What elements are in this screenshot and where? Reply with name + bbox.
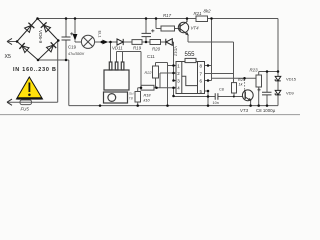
node dots mid bbox=[140, 86, 143, 89]
diode VD6 upper-left bbox=[28, 23, 34, 28]
resistor R18 bbox=[141, 85, 154, 90]
diode VD8 lower-left bbox=[19, 43, 24, 49]
wire R22 leads bbox=[156, 63, 168, 88]
diode VD11 bbox=[117, 39, 123, 45]
svg-text:R18: R18 bbox=[144, 94, 152, 98]
wire IC pin stubs left bbox=[174, 66, 177, 88]
wire pin1 to ground column bbox=[168, 63, 174, 106]
svg-text:VT4: VT4 bbox=[191, 26, 200, 31]
capacitor C11 bbox=[142, 33, 152, 36]
lamp EL1 bbox=[81, 35, 94, 48]
resistor R17 bbox=[161, 26, 175, 31]
svg-text:IN 160..230 В: IN 160..230 В bbox=[13, 67, 57, 73]
connector arrow from lamp (right) bbox=[102, 40, 108, 45]
wire R18 row y87.7 to pin4 bbox=[138, 87, 176, 89]
resistor R23 bbox=[256, 75, 262, 87]
warning triangle bbox=[17, 77, 43, 99]
svg-text:C19: C19 bbox=[68, 45, 77, 50]
svg-text:VD6-9: VD6-9 bbox=[38, 30, 43, 43]
resistor R19 bbox=[132, 40, 142, 45]
resistor R20 bbox=[150, 40, 161, 45]
wire VD12 drop to IC pins 1-2 bbox=[173, 42, 175, 81]
svg-text:R19: R19 bbox=[133, 46, 142, 51]
wire lamp right lead bbox=[95, 41, 117, 43]
connector X5 lower arrow bbox=[7, 99, 12, 105]
resistor R22 bbox=[153, 66, 159, 78]
svg-text:ПН: ПН bbox=[129, 92, 134, 96]
fuse FU5 bbox=[20, 100, 32, 105]
svg-text:R20: R20 bbox=[152, 47, 161, 52]
resistor R24 bbox=[232, 83, 237, 93]
capacitor C9 10n bbox=[215, 93, 218, 99]
wire R24 bottom to VT3 base bbox=[234, 93, 243, 97]
svg-text:VD12: VD12 bbox=[174, 46, 179, 57]
wire pin7 row bbox=[205, 73, 234, 75]
wire R17 elbow from top rail bbox=[156, 19, 180, 29]
diode VD9 lower-right bbox=[51, 42, 57, 48]
transistor VT4 bbox=[178, 19, 188, 35]
svg-text:47u/350V: 47u/350V bbox=[68, 52, 85, 56]
svg-text:C11: C11 bbox=[147, 54, 155, 59]
svg-text:R22: R22 bbox=[145, 71, 153, 75]
bottom page rule bbox=[0, 114, 300, 116]
diode VD7 upper-right bbox=[41, 22, 47, 27]
wire R23 leads bbox=[259, 72, 278, 106]
connector arrow into lamp (down) bbox=[73, 34, 78, 41]
node dots IC pins bbox=[172, 64, 175, 67]
node dots bus bbox=[99, 104, 102, 107]
capacitor C8 bbox=[262, 92, 272, 95]
wire zener column x278 bbox=[277, 72, 279, 106]
node dots top rail bbox=[65, 17, 68, 20]
svg-text:R24: R24 bbox=[238, 78, 245, 82]
wire bridge bottom node to C19 drop bbox=[38, 60, 69, 106]
wire VT3 emitter drop bbox=[250, 100, 252, 105]
wire lamp module pins loop y51.5 bbox=[117, 52, 142, 63]
diode bridge VD6-9 edges bbox=[17, 19, 58, 61]
svg-text:VT3: VT3 bbox=[240, 108, 249, 113]
svg-text:VD15: VD15 bbox=[286, 77, 297, 82]
node dots bridge bbox=[16, 40, 19, 43]
resistor R21 bbox=[196, 16, 208, 22]
optical dashed link to VT3 bbox=[244, 79, 246, 90]
wire C19 column bbox=[65, 19, 67, 61]
svg-text:C8 1000µ: C8 1000µ bbox=[256, 108, 276, 113]
wire right drop from top rail bbox=[277, 19, 279, 72]
wire VT4 emitter run bbox=[188, 35, 234, 83]
wire bottom bus bbox=[69, 105, 278, 107]
wire x212 column pin8-pin6 bbox=[205, 19, 212, 81]
svg-text:VD11: VD11 bbox=[112, 46, 123, 51]
svg-text:C8: C8 bbox=[219, 88, 224, 92]
wire internal step bbox=[182, 76, 198, 85]
wire R16 vertical leads bbox=[137, 88, 139, 106]
svg-text:VD9: VD9 bbox=[286, 91, 295, 96]
wire pin5 and C9 row bbox=[205, 91, 234, 106]
transistor VT3 bbox=[242, 90, 253, 101]
svg-text:R23: R23 bbox=[250, 68, 259, 73]
svg-text:555: 555 bbox=[185, 52, 196, 58]
resistor R16 bbox=[135, 92, 141, 103]
wire lamp module left pin drop bbox=[110, 42, 112, 62]
node dots lamp row bbox=[101, 41, 104, 44]
svg-text:k10: k10 bbox=[144, 99, 151, 103]
svg-text:FU5: FU5 bbox=[21, 107, 30, 112]
svg-text:R17: R17 bbox=[163, 13, 172, 18]
wire plug upper lead bbox=[7, 41, 17, 43]
wire fuse column from bridge right node bbox=[7, 41, 58, 103]
wire x141 down to R18 node bbox=[140, 52, 142, 88]
connector X5 upper arrow bbox=[7, 38, 12, 44]
zener VD9 bbox=[275, 90, 281, 95]
svg-text:X5: X5 bbox=[5, 54, 11, 60]
svg-text:EL1: EL1 bbox=[98, 31, 103, 39]
diode VD12 bbox=[166, 39, 173, 46]
capacitor C19 bbox=[62, 37, 71, 40]
wire top +rail bbox=[38, 18, 279, 20]
svg-text:R21: R21 bbox=[194, 11, 203, 16]
wire y42 chain segments bbox=[123, 41, 173, 43]
IC DA1 555 bbox=[176, 58, 205, 93]
svg-text:8k2: 8k2 bbox=[204, 9, 212, 14]
capacitor C11 leads bbox=[145, 19, 147, 43]
wire pin2 branch bbox=[160, 73, 174, 88]
wire IC bottom loop pin column to pin5 column bbox=[174, 88, 209, 97]
capacitor C8 leads bbox=[266, 72, 268, 106]
svg-text:10n: 10n bbox=[213, 101, 219, 105]
wire y78.3 row to VT3 bbox=[212, 77, 256, 79]
wire lamp feed column x75 bbox=[75, 19, 81, 43]
lamp module (ballast) bbox=[104, 62, 130, 103]
zener VD15 bbox=[275, 76, 281, 81]
